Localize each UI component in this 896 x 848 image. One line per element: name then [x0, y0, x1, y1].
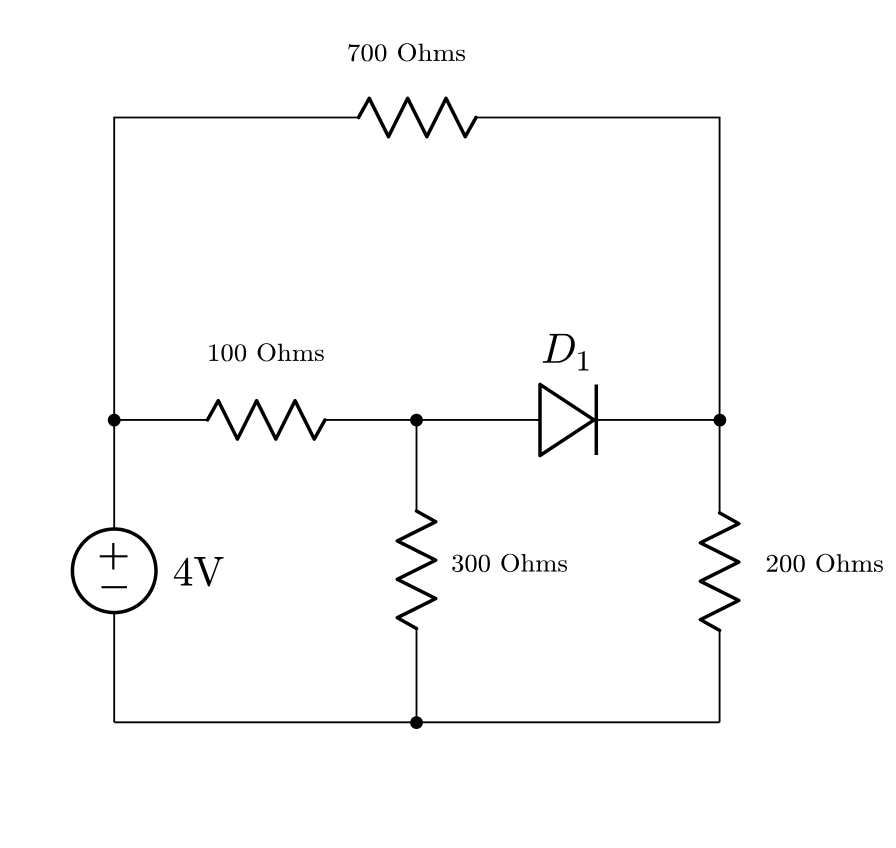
wire left vertical lower	[113, 612, 115, 722]
label 700 Ohms	[348, 43, 465, 61]
label 4V	[174, 557, 224, 586]
label D1 designator D	[543, 334, 575, 363]
wire bottom	[114, 721, 719, 723]
voltage source V1 4V	[72, 529, 156, 613]
diode D1	[540, 384, 596, 455]
label D1 subscript 1	[578, 351, 588, 370]
wire left vertical upper (node A to source)	[113, 420, 115, 529]
resistor 100 Ohms	[208, 401, 326, 439]
node D (bottom junction)	[410, 716, 423, 729]
wire top-right horizontal	[475, 118, 720, 421]
node C (right middle junction)	[714, 414, 727, 427]
resistor 300 Ohms	[397, 511, 435, 629]
node B (center middle junction)	[410, 414, 423, 427]
wire middle-left	[114, 419, 207, 421]
wire top-left horizontal	[114, 118, 358, 421]
resistor 200 Ohms	[700, 513, 738, 631]
resistor 700 Ohms	[359, 98, 477, 136]
wire right vertical lower	[719, 629, 721, 722]
wire right vertical upper stub	[719, 420, 721, 513]
wire middle-center	[324, 419, 540, 421]
wire middle vertical lower	[416, 627, 418, 722]
wire middle vertical stub	[416, 420, 418, 511]
label 200 Ohms	[767, 554, 883, 572]
label 100 Ohms	[209, 343, 324, 361]
label 300 Ohms	[452, 554, 567, 572]
wire middle-right	[596, 419, 719, 421]
node A (left middle junction)	[108, 414, 121, 427]
